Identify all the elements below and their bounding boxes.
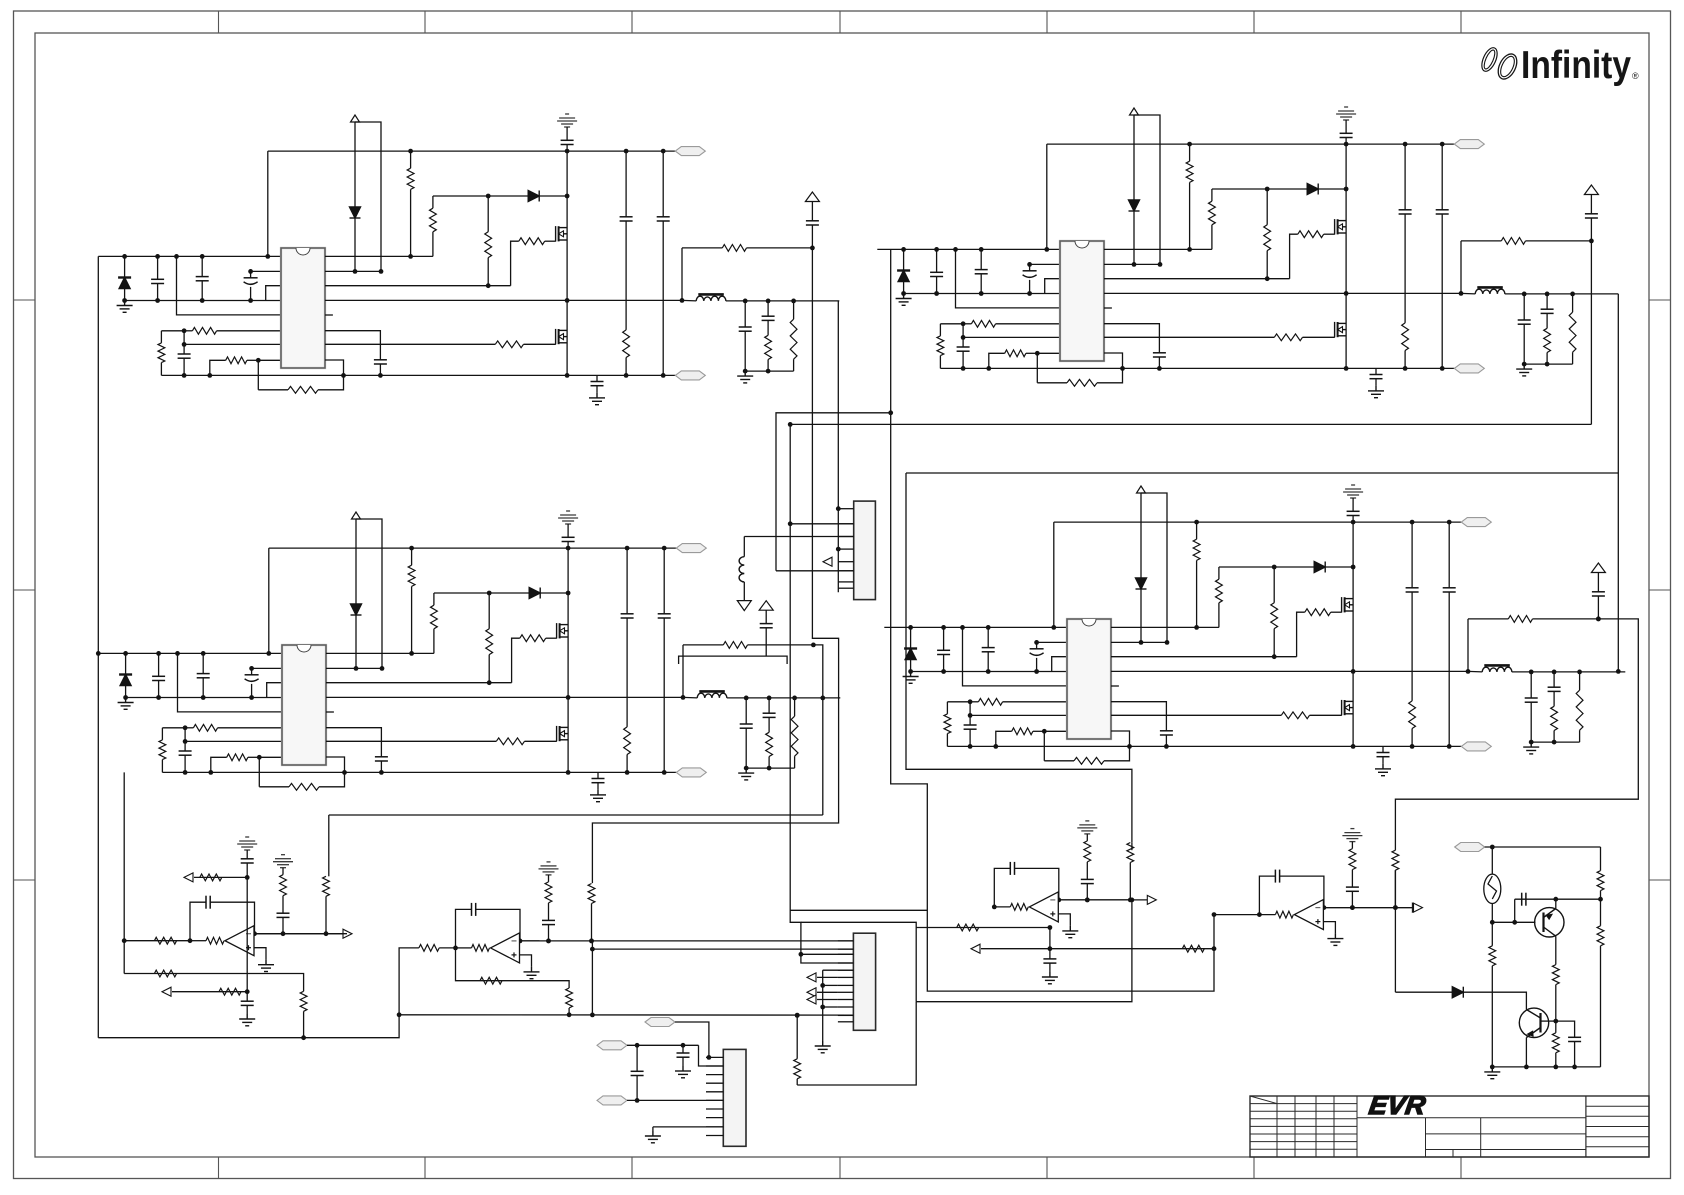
junction — [182, 342, 187, 347]
connector tag TAG_J3a — [645, 1018, 675, 1027]
junction — [1128, 898, 1133, 903]
wire jog to pin5 — [178, 653, 283, 712]
junction — [1351, 565, 1356, 570]
junction — [123, 695, 128, 700]
wire to arrow — [274, 933, 343, 935]
ground G_U7A1 (reference) — [1077, 821, 1097, 834]
zener diode DZ2 — [1129, 200, 1140, 211]
junction — [566, 591, 571, 596]
junction — [354, 666, 359, 671]
wire Rtb b — [1196, 560, 1198, 627]
junction — [1524, 1065, 1529, 1070]
ground G_U5b — [239, 1014, 255, 1026]
junction — [953, 247, 958, 252]
wire cap C in b — [157, 284, 159, 301]
junction — [1572, 1065, 1577, 1070]
wire col1 b — [282, 896, 284, 914]
wire pin5 stub — [1111, 685, 1119, 687]
wire coutA b — [745, 728, 747, 768]
revision row — [1250, 1118, 1357, 1120]
junction — [1132, 262, 1137, 267]
resistor R17 — [1067, 379, 1097, 386]
power symbol VCC4 — [1584, 185, 1598, 195]
resistor R_U5e — [219, 988, 241, 995]
capacitor C42 — [1592, 592, 1605, 596]
wire boost — [489, 592, 568, 594]
capacitor C_U5Af — [206, 896, 210, 909]
wire pin2 — [252, 667, 282, 669]
junction — [1056, 898, 1061, 903]
wire J2 pin 8 — [838, 991, 854, 993]
wire gate1 feed — [1290, 234, 1298, 279]
wire Vin top — [877, 248, 1060, 250]
capacitor C31 — [740, 724, 753, 728]
wire elcap a — [250, 271, 252, 277]
resistor R40 — [944, 714, 951, 734]
junction — [820, 696, 825, 701]
diode D3 — [897, 271, 910, 282]
junction — [1440, 142, 1445, 147]
capacitor C5 — [374, 360, 387, 364]
capacitor C_U5u — [241, 1001, 254, 1005]
resistor R34 — [486, 629, 493, 655]
wire J2 arrow feed — [817, 999, 838, 1001]
junction — [1351, 520, 1356, 525]
wire bracket mid — [801, 922, 916, 1001]
wire BR bracket — [906, 472, 1618, 474]
wire rail — [567, 542, 569, 772]
wire J2 bus riser — [797, 1002, 916, 1085]
resistor R37 — [766, 732, 773, 756]
junction — [546, 939, 551, 944]
capacitor C28 — [179, 751, 192, 755]
resistor R_U6Ao — [472, 945, 490, 952]
resistor R11 — [765, 335, 772, 359]
resistor R4 — [288, 386, 318, 393]
junction — [792, 696, 797, 701]
wire snub a — [596, 375, 598, 381]
wire pin2 right — [325, 270, 381, 272]
wire vref b — [811, 225, 813, 248]
wire cfa1 — [1411, 522, 1413, 588]
resistor R18 — [1274, 334, 1302, 341]
wire R osc to pin6 — [1003, 701, 1067, 703]
capacitor C25 — [152, 676, 165, 680]
wire gnd rail — [911, 671, 1067, 673]
wire bank bottom — [1531, 741, 1579, 743]
title block outline — [1250, 1096, 1649, 1157]
wire J3 pin 2 — [706, 1065, 723, 1067]
wire J1 pin 6 — [838, 570, 853, 572]
junction — [1212, 946, 1217, 951]
junction — [888, 410, 893, 415]
wire top-left drop — [268, 548, 270, 653]
junction — [934, 291, 939, 296]
revision column — [1294, 1096, 1296, 1157]
resistor R1 — [158, 343, 165, 363]
wire J1 pin6 feed — [776, 570, 854, 572]
wire pin6 cap b — [379, 364, 381, 375]
wire Rb2 b — [487, 258, 489, 286]
junction — [1044, 247, 1049, 252]
connector tag TAG_1A — [675, 147, 705, 156]
wire vcc — [1140, 493, 1142, 578]
ground GND_U7A — [1062, 926, 1078, 938]
capacitor C35 — [658, 614, 671, 618]
title block row — [1586, 1115, 1649, 1117]
junction — [565, 149, 570, 154]
capacitor C17 — [1153, 353, 1166, 357]
title block row — [1586, 1146, 1649, 1148]
border zone tick — [218, 11, 220, 33]
wire J3 pin 4 — [706, 1082, 723, 1084]
wire J2 pin5 feed — [823, 969, 854, 971]
wire vref b — [1597, 596, 1599, 619]
junction — [1027, 262, 1032, 267]
wire boost — [488, 195, 567, 197]
wire J2 dot feed a — [823, 984, 838, 986]
wire gate1 — [546, 637, 557, 639]
wire Q top — [1485, 846, 1601, 848]
wire J2 arrow feed — [817, 991, 838, 993]
wire fb top b — [748, 644, 814, 646]
wire J2 dot feed b — [823, 1006, 838, 1008]
transistor Q7 (MOSFET) — [1342, 597, 1354, 612]
connector tag TAG_2B — [1454, 364, 1484, 373]
junction — [257, 755, 262, 760]
resistor R16 — [1005, 350, 1026, 357]
wire J1 pin2 feed — [790, 523, 854, 525]
junction — [941, 669, 946, 674]
junction — [281, 931, 286, 936]
wire elcap b — [1029, 280, 1031, 294]
inductor L_J1 — [739, 557, 744, 582]
wire J1 coil b — [743, 582, 745, 601]
wire TR out drop — [1617, 294, 1619, 672]
wire pin6 cap b — [380, 761, 382, 772]
wire fb run — [258, 389, 288, 391]
wire gate1 feed — [1297, 612, 1305, 657]
junction — [1085, 898, 1090, 903]
resistor R_U5a — [154, 937, 176, 944]
junction — [993, 744, 998, 749]
wire col1 b — [1086, 862, 1088, 880]
junction — [836, 547, 841, 552]
wire cap C in a — [157, 256, 159, 279]
power symbol VCC6 — [1137, 486, 1146, 493]
junction — [342, 770, 347, 775]
wire col1 b — [548, 903, 550, 921]
wire pin6 right — [325, 331, 380, 360]
wire J3 tag2 — [627, 1044, 699, 1046]
wire fb top a — [683, 644, 723, 646]
resistor R2 — [192, 327, 216, 334]
wire coutB b — [1546, 313, 1548, 328]
connector tag TAG_J3b — [597, 1041, 627, 1050]
wire top bus — [269, 547, 677, 549]
border zone tick — [631, 1157, 633, 1179]
wire pin8 — [1037, 352, 1060, 354]
wire comp v b — [184, 755, 186, 772]
wire cap C in b — [943, 655, 945, 672]
wire cfb2 — [662, 221, 664, 375]
junction — [662, 770, 667, 775]
junction — [590, 947, 595, 952]
wire pin6 right — [1111, 702, 1166, 731]
wire pin5 stub — [326, 711, 334, 713]
wire +input — [520, 955, 532, 967]
junction — [122, 938, 127, 943]
capacitor C_U8Af — [1275, 870, 1279, 883]
wire pin7 — [185, 740, 282, 742]
junction — [1187, 247, 1192, 252]
wire comp v a — [183, 331, 185, 354]
junction — [341, 373, 346, 378]
junction — [182, 328, 187, 333]
junction — [301, 1035, 306, 1040]
wire gnd rail — [126, 697, 282, 699]
wire coutB c — [768, 757, 770, 769]
zener diode DZ4 — [1136, 578, 1147, 589]
wire gate2 — [1303, 336, 1335, 338]
junction — [1553, 1019, 1558, 1024]
wire gate1 — [545, 240, 556, 242]
junction — [625, 546, 630, 551]
wire J1 coil drop — [743, 537, 745, 557]
wire fb run b — [1097, 368, 1123, 382]
wire top bus — [268, 150, 676, 152]
op-amp U5A — [225, 926, 254, 956]
transistor Q1 (PNP) — [1535, 908, 1564, 937]
wire J2 pin 4 — [838, 962, 854, 964]
connector tag TAG_4B — [1461, 742, 1491, 751]
wire Rb2 a — [1266, 189, 1268, 225]
wire Rg net b — [432, 196, 434, 208]
wire Vin top — [99, 652, 282, 654]
wire J1 vrun — [679, 656, 788, 664]
wire pin3 right — [326, 682, 512, 684]
title block divider — [1585, 1096, 1587, 1157]
wire top bus — [1054, 521, 1462, 523]
wire Rt top — [940, 323, 963, 325]
resistor R35 — [520, 635, 546, 642]
junction — [820, 1005, 825, 1010]
junction — [979, 247, 984, 252]
wire coutA a — [1530, 672, 1532, 698]
wire gnd rail — [125, 300, 281, 302]
wire comp v b — [183, 358, 185, 375]
wire cfa2 — [1411, 592, 1413, 701]
wire U7 col2 up — [1131, 842, 1133, 850]
capacitor C32 — [763, 713, 776, 717]
resistor R_U5c — [300, 991, 307, 1011]
wire top-left drop — [1046, 144, 1048, 249]
ground G_U5t (reference) — [237, 837, 257, 850]
wire coutA a — [744, 301, 746, 327]
junction — [1410, 520, 1415, 525]
wire col2 — [591, 904, 593, 941]
wire U7 in2 — [916, 927, 1050, 929]
wire coutA a — [745, 698, 747, 724]
wire elcap a — [251, 668, 253, 674]
title mid v2 — [1480, 1118, 1482, 1157]
junction — [156, 651, 161, 656]
wire -input — [254, 933, 274, 935]
wire col2 — [325, 896, 327, 933]
wire cfa3 — [626, 755, 628, 773]
junction — [1158, 262, 1163, 267]
resistor R51 — [1576, 690, 1583, 730]
wire Q2 base — [1541, 1020, 1556, 1022]
wire J2 pin 6 — [838, 976, 854, 978]
border zone tick — [631, 11, 633, 33]
capacitor C37 — [982, 648, 995, 652]
junction — [635, 1043, 640, 1048]
wire U8 minus ext — [1323, 907, 1413, 909]
wire bottom bus — [161, 374, 675, 376]
junction — [1344, 366, 1349, 371]
net arrow NL3 — [807, 995, 816, 1004]
wire U5 tcol c — [246, 877, 248, 991]
wire elcap b — [1036, 658, 1038, 672]
wire fb a — [994, 868, 1010, 907]
resistor R33 — [431, 605, 438, 629]
wire pin1 right — [1104, 248, 1212, 250]
wire switch node — [1104, 292, 1461, 294]
wire Rg net a — [1219, 566, 1274, 568]
wire cap C in2 b — [987, 652, 989, 672]
wire Q1 base — [1492, 921, 1535, 923]
revision row — [1250, 1141, 1357, 1143]
wire Q1 emit col — [1555, 936, 1557, 964]
wire snub b — [1375, 379, 1377, 386]
wire Vin top — [884, 626, 1067, 628]
revision column — [1356, 1096, 1358, 1157]
wire H1 bridge — [776, 413, 891, 571]
transistor Q6 (MOSFET) — [557, 726, 569, 741]
resistor R_U5Ao — [206, 937, 224, 944]
wire U5 trim1 — [194, 876, 247, 878]
junction — [1490, 920, 1495, 925]
transistor Q3 (MOSFET) — [1335, 219, 1347, 234]
wire snub a — [597, 772, 599, 778]
junction — [248, 269, 253, 274]
junction — [1350, 905, 1355, 910]
ground (reference) — [1343, 485, 1363, 498]
revision column — [1276, 1096, 1278, 1157]
junction — [681, 1043, 686, 1048]
wire diode anode — [910, 627, 912, 648]
border zone tick — [1649, 299, 1671, 301]
wire J2 pin 5 — [838, 969, 854, 971]
ground GND_U8A — [1327, 934, 1343, 946]
wire col1 a — [1086, 834, 1088, 841]
wire bottom bus — [947, 745, 1461, 747]
wire J3 pin 7 — [706, 1108, 723, 1110]
ground — [590, 790, 606, 802]
capacitor C_U7u — [1043, 959, 1056, 963]
resistor R_U6c — [419, 945, 439, 952]
wire diode anode — [125, 653, 127, 674]
connector tag TAG_3B — [676, 768, 706, 777]
wire J feed drop — [790, 424, 853, 963]
wire gate1 feed — [511, 241, 519, 286]
junction — [1440, 366, 1445, 371]
junction — [1529, 740, 1534, 745]
wire snub b — [596, 386, 598, 393]
wire Rt stem b — [161, 760, 163, 773]
border zone tick — [14, 299, 36, 301]
wire coutB a — [1553, 672, 1555, 687]
junction — [183, 725, 188, 730]
wire pin7 right — [1104, 336, 1274, 338]
connector tag TAG_Q — [1455, 843, 1485, 852]
ground G_U5A1 (reference) — [273, 855, 293, 868]
wire to arrow — [1343, 907, 1412, 909]
capacitor C3 (polarized) — [244, 278, 258, 285]
wire pin8 — [259, 756, 282, 758]
wire pin8 — [258, 359, 281, 361]
wire Rtb b — [411, 586, 413, 653]
wire Rtb a — [1189, 144, 1191, 161]
resistor R32 — [408, 565, 415, 586]
resistor R6 — [407, 168, 414, 189]
wire U6 minus ext — [520, 940, 854, 942]
capacitor C1 — [151, 279, 164, 283]
wire pin3 right — [1111, 656, 1297, 658]
ground G_U8A1 (reference) — [1342, 829, 1362, 842]
net arrow NL2 — [807, 988, 816, 997]
wire col2 — [1129, 863, 1131, 900]
wire cfa3 — [1404, 351, 1406, 369]
border zone tick — [1460, 1157, 1462, 1179]
wire cfa1 — [1404, 144, 1406, 210]
wire BL fb riser — [328, 815, 330, 876]
wire U7 line3 — [981, 948, 1214, 950]
net arrow NL1 — [807, 973, 816, 982]
junction — [811, 643, 816, 648]
title block row — [1586, 1136, 1649, 1138]
wire routC b — [1572, 352, 1574, 364]
wire routC b — [794, 756, 796, 768]
junction — [155, 298, 160, 303]
junction — [662, 546, 667, 551]
revision row — [1250, 1110, 1357, 1112]
wire bank bottom — [1524, 363, 1572, 365]
resistor R27 — [159, 740, 166, 760]
transistor Q8 (MOSFET) — [1342, 700, 1354, 715]
resistor R12 — [790, 319, 797, 359]
connector J2 — [853, 933, 875, 1030]
junction — [1351, 669, 1356, 674]
wire coutA b — [1530, 702, 1532, 742]
wire top bus — [1047, 143, 1455, 145]
wire fb top a — [682, 247, 722, 249]
wire snub a — [1375, 368, 1377, 374]
wire Vin top — [98, 255, 281, 257]
capacitor C_U7A1 — [1081, 879, 1094, 883]
junction — [680, 298, 685, 303]
resistor R_U8Ao — [1275, 911, 1293, 918]
svg-text:Infinity: Infinity — [1521, 44, 1631, 87]
wire sw to L — [1468, 670, 1482, 673]
wire Rt stem a — [939, 324, 941, 336]
revision column — [1315, 1096, 1317, 1157]
junction — [1596, 617, 1601, 622]
power symbol VP_J1 — [759, 601, 773, 611]
wire fb top a — [1468, 618, 1508, 620]
junction — [566, 770, 571, 775]
